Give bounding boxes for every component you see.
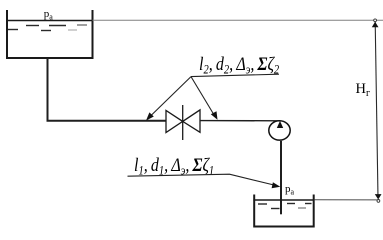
arrowhead Hg top (372, 22, 379, 27)
arrowhead Hg bottom (375, 194, 382, 199)
svg-text:l1, d1, Δэ, Σζ1: l1, d1, Δэ, Σζ1 (134, 153, 214, 177)
node circle bottom (377, 200, 380, 203)
wire water surface extension upper (93, 19, 383, 21)
arrowhead L2 left (146, 112, 154, 120)
wire L1 underline leader (128, 174, 277, 185)
upper tank water dashes (8, 25, 87, 31)
valve V1 (166, 105, 200, 140)
lower tank (253, 195, 314, 227)
arrowhead L1 (272, 182, 281, 188)
svg-text:l2, d2, Δэ, Σζ2: l2, d2, Δэ, Σζ2 (199, 52, 279, 76)
wire valve to pump (200, 120, 280, 122)
wire L2 underline (191, 74, 279, 76)
wire water surface extension lower (315, 199, 377, 201)
lower tank water dashes (258, 204, 312, 209)
wire L2 leader right (191, 77, 214, 114)
wire suction pipe from upper tank (48, 58, 166, 121)
pump U1 (269, 121, 290, 140)
arrowhead L2 right (211, 111, 218, 120)
node circle top (374, 19, 377, 22)
upper tank (6, 10, 94, 58)
wire L2 leader left (150, 77, 191, 117)
dimension line Hg (375, 22, 378, 198)
wire discharge pipe from pump to lower tank (280, 141, 282, 214)
